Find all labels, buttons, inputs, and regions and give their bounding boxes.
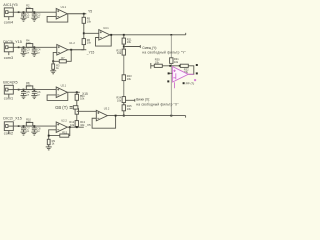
svg-text:_X5: _X5 — [84, 123, 91, 127]
svg-text:100: 100 — [26, 6, 31, 10]
svg-text:10k: 10k — [127, 40, 132, 44]
svg-text:на свободный фильтр "Y": на свободный фильтр "Y" — [142, 51, 186, 55]
svg-text:10k: 10k — [117, 51, 122, 55]
svg-text:GB (Т): GB (Т) — [55, 105, 68, 110]
svg-text:_Y15: _Y15 — [86, 50, 95, 54]
svg-text:100: 100 — [26, 83, 31, 87]
svg-text:100: 100 — [26, 41, 31, 45]
svg-text:com4: com4 — [4, 21, 13, 25]
svg-text:10k: 10k — [87, 19, 92, 23]
svg-text:10k: 10k — [117, 98, 122, 102]
svg-text:U1.2: U1.2 — [69, 41, 75, 45]
svg-text:100: 100 — [26, 120, 31, 124]
svg-text:DIC3/_Y15: DIC3/_Y15 — [3, 40, 22, 44]
svg-text:10k: 10k — [155, 60, 160, 64]
svg-text:BIC4(X5: BIC4(X5 — [3, 80, 17, 84]
svg-text:com3: com3 — [4, 56, 13, 60]
svg-text:DIC2/_X15: DIC2/_X15 — [3, 116, 22, 120]
svg-text:PP (?): PP (?) — [186, 82, 195, 86]
svg-text:10k: 10k — [80, 97, 85, 101]
svg-text:10k: 10k — [127, 107, 132, 111]
svg-text:U2.1: U2.1 — [61, 83, 67, 87]
svg-text:10k: 10k — [87, 41, 92, 45]
svg-text:U2.2: U2.2 — [61, 118, 67, 122]
svg-text:U3.1: U3.1 — [103, 26, 109, 30]
svg-text:на свободный фильтр "X": на свободный фильтр "X" — [136, 102, 178, 106]
svg-text:AIC1(Y5: AIC1(Y5 — [3, 3, 17, 7]
svg-text:R15: R15 — [62, 131, 67, 135]
svg-text:Вижн (X):: Вижн (X): — [136, 98, 150, 102]
svg-text:Смещ (Y):: Смещ (Y): — [142, 46, 157, 50]
svg-text:R7: R7 — [61, 56, 65, 60]
svg-text:10k: 10k — [174, 60, 179, 64]
svg-text:com2: com2 — [4, 132, 13, 136]
svg-text:Y5: Y5 — [88, 10, 92, 14]
svg-text:com1: com1 — [4, 97, 13, 101]
svg-text:U1.1: U1.1 — [61, 5, 67, 9]
svg-text:U3.2: U3.2 — [104, 107, 110, 111]
svg-text:10k: 10k — [127, 77, 132, 81]
